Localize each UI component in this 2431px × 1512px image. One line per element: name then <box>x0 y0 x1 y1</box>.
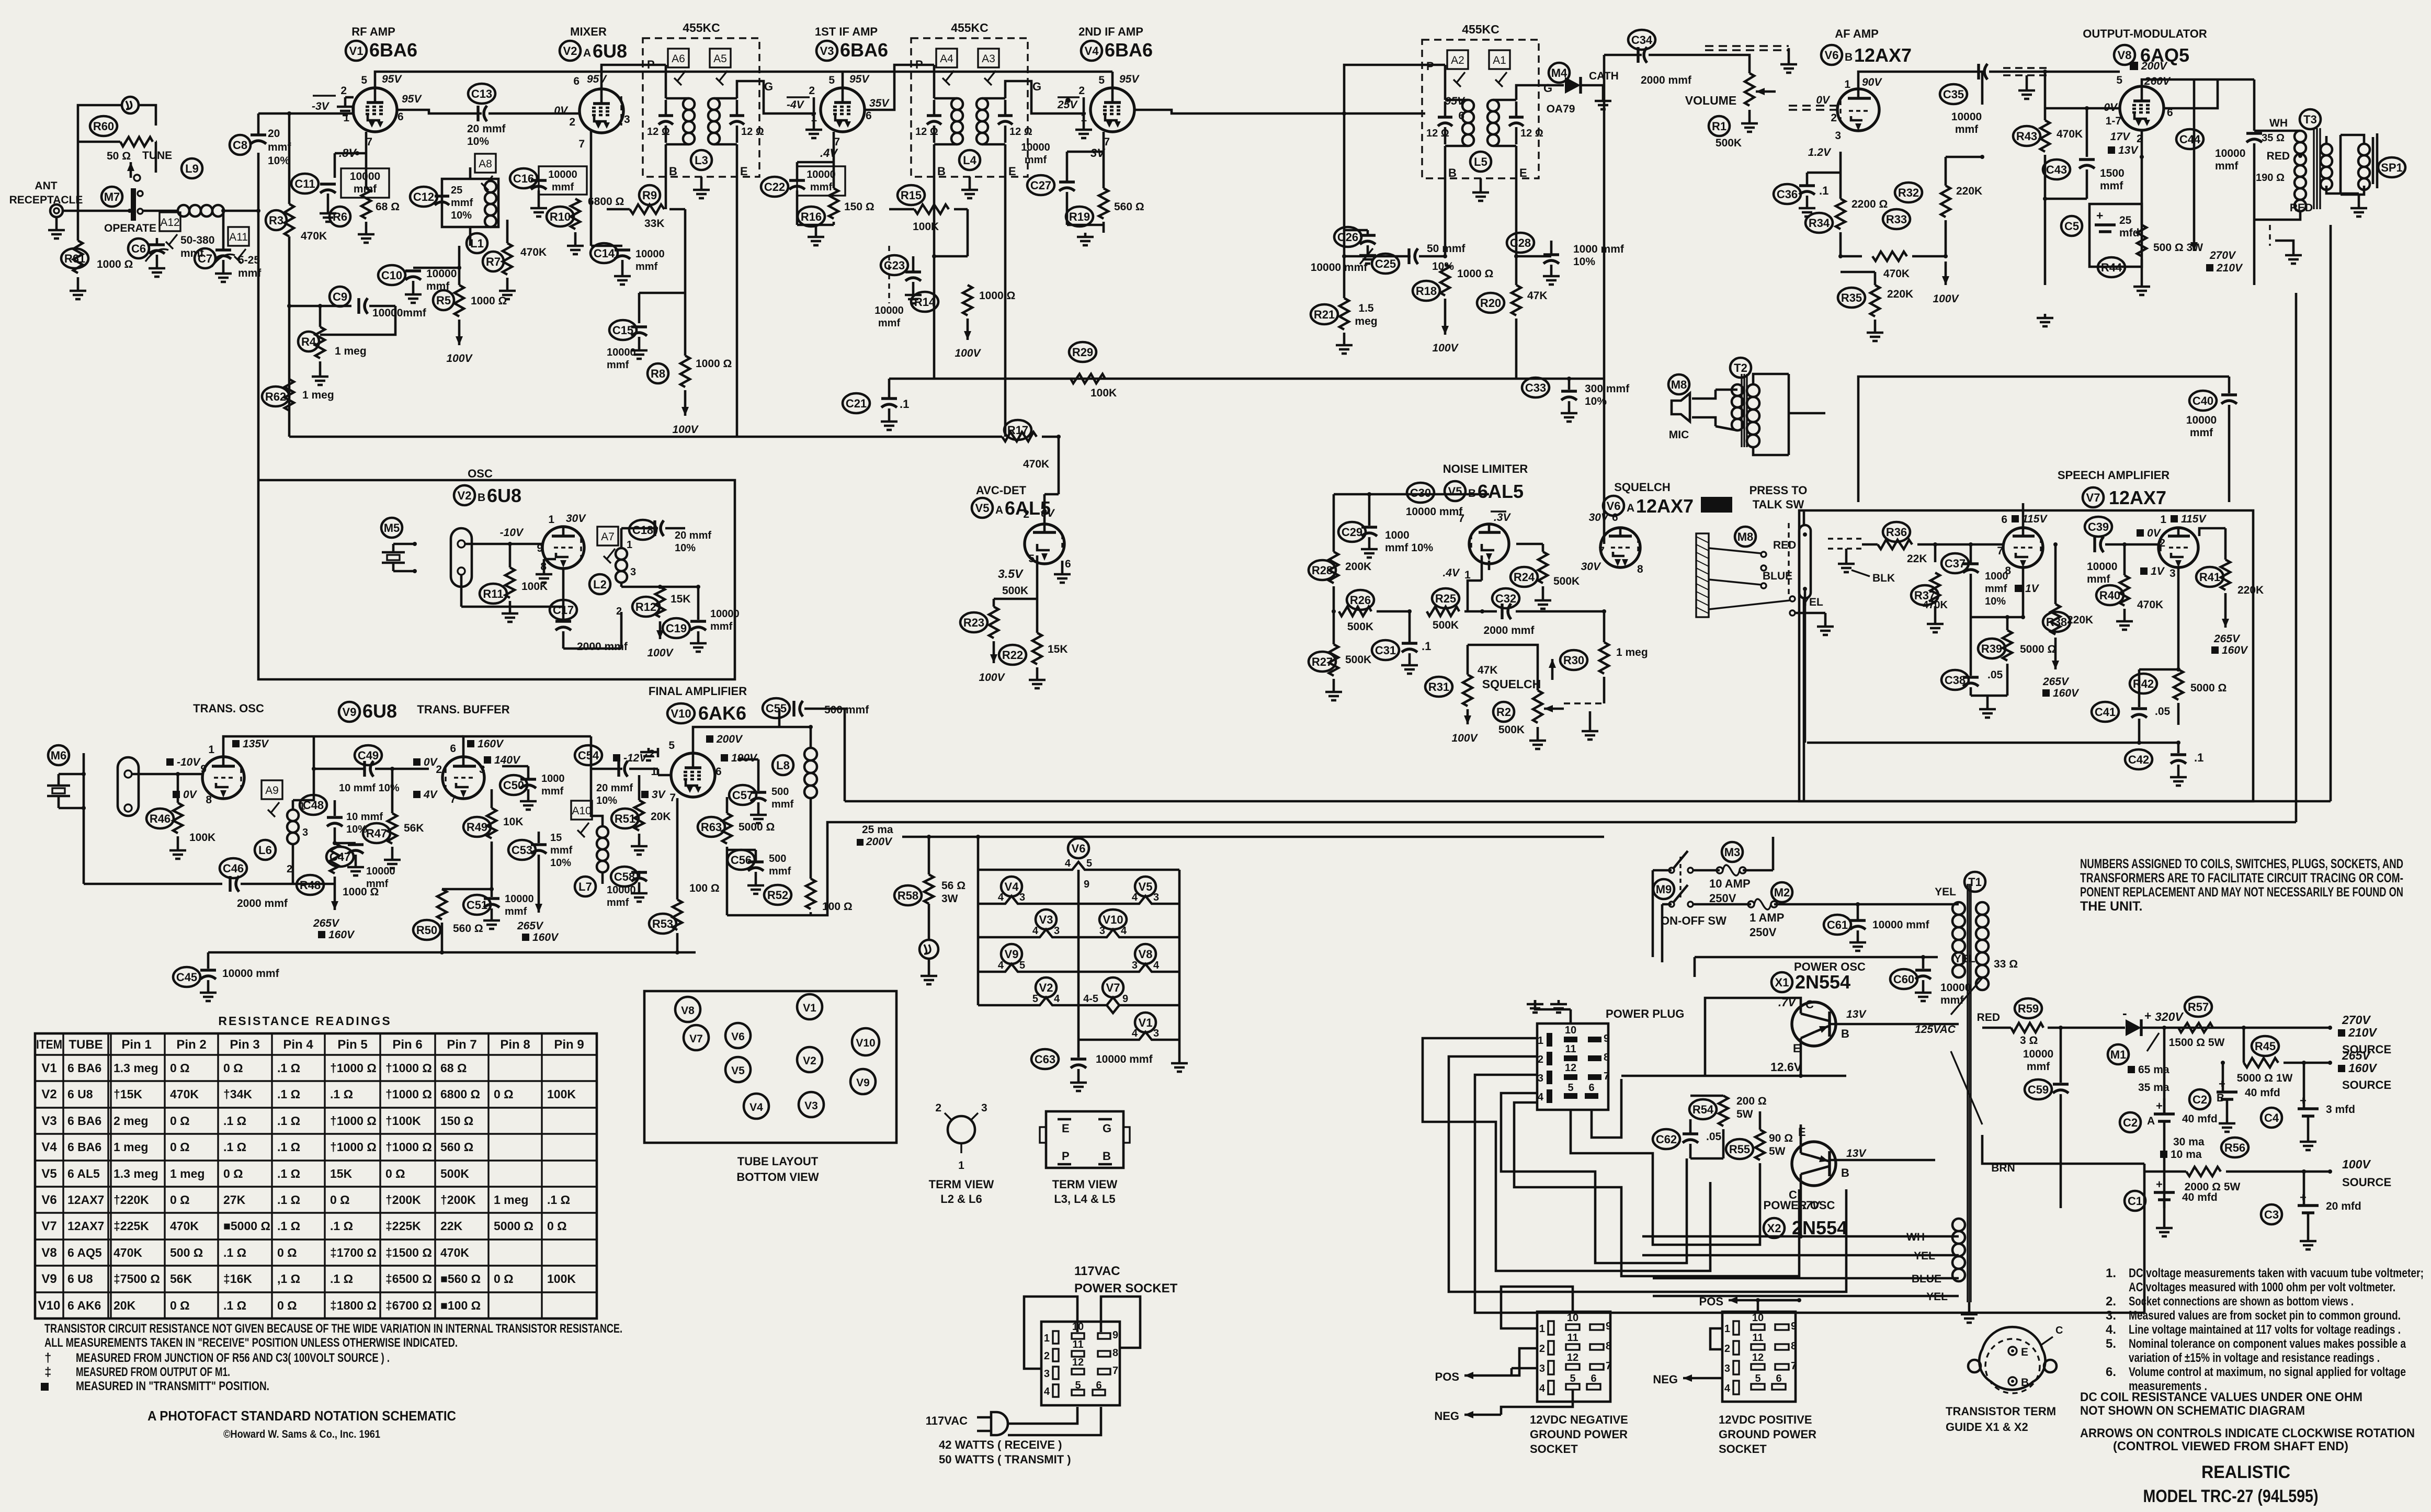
cathode network C5 R44 <box>2141 131 2143 157</box>
svg-text:NEG: NEG <box>1434 1409 1459 1423</box>
svg-text:10000: 10000 <box>426 268 457 280</box>
crystal M5 <box>381 518 402 538</box>
svg-text:5000 Ω: 5000 Ω <box>494 1219 533 1233</box>
wire V3 plate rail <box>842 72 844 88</box>
wire bus to noise limiter <box>1349 378 1516 380</box>
svg-text:95V: 95V <box>587 73 607 85</box>
tube V9A 6U8 transmitter oscillator <box>202 757 244 799</box>
svg-text:1: 1 <box>1464 569 1471 581</box>
svg-text:4: 4 <box>998 960 1004 971</box>
svg-text:125VAC: 125VAC <box>1915 1024 1956 1036</box>
svg-text:6: 6 <box>1065 558 1071 570</box>
svg-text:C46: C46 <box>223 862 244 875</box>
svg-text:C22: C22 <box>764 180 785 194</box>
svg-text:YEL: YEL <box>1935 886 1956 898</box>
svg-text:2: 2 <box>1044 1350 1050 1362</box>
svg-text:■5000 Ω: ■5000 Ω <box>223 1219 270 1233</box>
wire V5A anode from bus <box>1043 494 1046 524</box>
svg-text:-: - <box>2122 1005 2127 1021</box>
trimmer capacitor C6 <box>128 238 149 258</box>
svg-text:10000 mmf: 10000 mmf <box>1311 262 1368 274</box>
svg-text:B: B <box>1103 1150 1111 1163</box>
svg-text:C27: C27 <box>1030 179 1051 192</box>
svg-text:0 Ω: 0 Ω <box>330 1193 350 1207</box>
tube layout V10 <box>852 1028 879 1055</box>
resistor R11 100K <box>480 584 507 604</box>
svg-text:470K: 470K <box>520 246 547 258</box>
svg-text:5: 5 <box>361 74 367 86</box>
svg-text:C4: C4 <box>2264 1111 2279 1124</box>
svg-text:Pin 5: Pin 5 <box>337 1038 367 1052</box>
resistor R18 <box>1413 281 1440 301</box>
svg-text:L1: L1 <box>470 237 484 250</box>
svg-text:6: 6 <box>1458 110 1464 122</box>
secondary winding <box>976 98 988 110</box>
svg-text:A6: A6 <box>672 53 685 65</box>
svg-text:meg: meg <box>1355 315 1377 327</box>
svg-text:10%: 10% <box>596 795 617 806</box>
svg-text:TRANS. OSC: TRANS. OSC <box>193 702 264 715</box>
capacitor C9 AVC filter <box>330 287 350 306</box>
svg-text:.1 Ω: .1 Ω <box>223 1140 246 1154</box>
resistor R39 5000 <box>1978 639 2005 658</box>
svg-text:500: 500 <box>771 786 789 798</box>
svg-text:WH: WH <box>2269 117 2288 129</box>
socket wire loop right <box>1101 1297 1140 1348</box>
svg-text:V9: V9 <box>343 706 357 719</box>
svg-text:9: 9 <box>1791 1321 1797 1332</box>
transformer T2 microphone <box>1730 358 1751 378</box>
12VDC positive ground power socket <box>1722 1312 1796 1402</box>
svg-text:POWER SOCKET: POWER SOCKET <box>1074 1281 1178 1295</box>
svg-text:L6: L6 <box>258 844 272 857</box>
svg-text:4: 4 <box>1054 993 1060 1005</box>
capacitor C41 <box>2092 702 2119 722</box>
svg-text:+: + <box>2144 1009 2151 1022</box>
svg-text:10 AMP: 10 AMP <box>1709 877 1751 890</box>
X1 base bar <box>1828 1011 1831 1037</box>
svg-text:†1000 Ω: †1000 Ω <box>385 1061 432 1075</box>
svg-text:V6: V6 <box>1607 499 1621 513</box>
svg-text:10000: 10000 <box>874 305 904 316</box>
svg-text:1500 Ω 5W: 1500 Ω 5W <box>2169 1037 2225 1049</box>
svg-text:mmf: mmf <box>552 181 574 193</box>
svg-text:47K: 47K <box>1527 290 1548 302</box>
coil L7 <box>575 877 596 896</box>
svg-text:95V: 95V <box>849 73 870 85</box>
svg-text:10K: 10K <box>503 816 524 828</box>
svg-text:C55: C55 <box>766 702 787 715</box>
svg-text:A7: A7 <box>601 531 615 543</box>
svg-text:V10: V10 <box>1103 913 1123 926</box>
svg-text:4: 4 <box>1132 892 1138 903</box>
svg-text:E: E <box>1008 165 1016 178</box>
wire L6 bottom <box>292 844 294 884</box>
svg-text:22K: 22K <box>440 1219 463 1233</box>
svg-text:15K: 15K <box>330 1167 353 1180</box>
speech amplifier enclosure box <box>1799 510 2253 801</box>
svg-text:SOURCE: SOURCE <box>2342 1176 2391 1189</box>
svg-text:100V: 100V <box>1432 342 1459 354</box>
svg-text:A10: A10 <box>572 805 591 817</box>
svg-text:500K: 500K <box>440 1167 469 1180</box>
svg-text:A12: A12 <box>160 217 179 229</box>
svg-text:†1000 Ω: †1000 Ω <box>385 1140 432 1154</box>
wire V5A cathode down <box>1036 555 1039 599</box>
resistor R45 5000 1W <box>2252 1036 2279 1056</box>
svg-text:3: 3 <box>302 827 308 838</box>
svg-text:100V: 100V <box>979 672 1005 684</box>
svg-text:AF AMP: AF AMP <box>1835 27 1879 40</box>
svg-text:1000: 1000 <box>1385 529 1410 541</box>
svg-text:30V: 30V <box>1589 511 1609 524</box>
heater V9 <box>1001 944 1022 964</box>
svg-text:R20: R20 <box>1480 297 1501 310</box>
svg-text:C34: C34 <box>1631 33 1653 47</box>
T1 secondary 33ohm <box>1976 902 1989 915</box>
svg-text:C40: C40 <box>2193 394 2213 407</box>
svg-text:A: A <box>583 47 591 59</box>
wire V6B plate to C35 <box>1858 72 1982 105</box>
svg-text:B: B <box>669 165 677 178</box>
resistor R21 <box>1311 304 1338 324</box>
svg-text:V1: V1 <box>349 44 363 58</box>
svg-text:6AK6: 6AK6 <box>698 702 746 724</box>
svg-text:1: 1 <box>651 766 657 778</box>
svg-text:20 mmf: 20 mmf <box>675 530 711 541</box>
svg-text:6: 6 <box>1776 1373 1781 1384</box>
svg-text:V4: V4 <box>749 1101 763 1113</box>
wire B lead IF3 down <box>1444 146 1447 256</box>
capacitor C26 <box>1334 227 1361 247</box>
svg-text:C2: C2 <box>2193 1093 2207 1106</box>
svg-text:9: 9 <box>1606 1321 1611 1332</box>
svg-text:12AX7: 12AX7 <box>1854 44 1912 66</box>
svg-text:C37: C37 <box>1945 557 1966 570</box>
svg-text:1000 mmf: 1000 mmf <box>1573 243 1625 255</box>
svg-text:R15: R15 <box>901 189 922 202</box>
shielded mic cable <box>1803 510 1805 801</box>
svg-text:5000 Ω: 5000 Ω <box>2190 682 2226 694</box>
T2 core <box>1741 374 1742 447</box>
switch gang dashed <box>1679 857 1681 901</box>
svg-text:L9: L9 <box>185 162 199 175</box>
capacitor C28 <box>1507 233 1534 253</box>
ground V5A <box>1061 561 1064 570</box>
svg-text:0 Ω: 0 Ω <box>170 1299 190 1312</box>
svg-text:220K: 220K <box>1887 288 1913 300</box>
svg-text:260V: 260V <box>2144 75 2171 87</box>
resistor R61 <box>61 248 88 268</box>
270V 210V source <box>2328 1026 2332 1030</box>
wire crystal return <box>460 575 463 607</box>
svg-text:220K: 220K <box>2067 614 2093 626</box>
B+ arrow 100V detector <box>993 641 995 663</box>
svg-text:mmf: mmf <box>2215 160 2239 172</box>
svg-text:12VDC POSITIVE: 12VDC POSITIVE <box>1719 1413 1812 1426</box>
svg-text:4: 4 <box>1044 1386 1050 1397</box>
svg-text:190 Ω: 190 Ω <box>2256 172 2285 184</box>
svg-text:E: E <box>2021 1346 2028 1358</box>
svg-text:■100 Ω: ■100 Ω <box>440 1299 481 1312</box>
svg-text:.1 Ω: .1 Ω <box>223 1114 246 1128</box>
press to talk plunger dashed <box>1788 523 1789 596</box>
T1 secondary lower leads <box>1956 892 1982 902</box>
T1 primary lower <box>1952 1219 1965 1231</box>
svg-text:6: 6 <box>1096 1380 1101 1391</box>
wire L6 to osc plate <box>292 800 294 810</box>
svg-text:500K: 500K <box>1347 621 1373 633</box>
svg-text:R54: R54 <box>1692 1103 1714 1116</box>
wire P lead IF2 <box>915 64 934 66</box>
svg-text:3: 3 <box>1132 960 1138 971</box>
svg-text:7: 7 <box>1791 1360 1797 1372</box>
tube layout V9 <box>850 1069 876 1094</box>
svg-text:10000: 10000 <box>1951 111 1982 123</box>
svg-text:20 mmf: 20 mmf <box>467 123 506 135</box>
svg-text:100V: 100V <box>672 424 699 436</box>
svg-text:E: E <box>1519 166 1527 179</box>
svg-text:-12V: -12V <box>623 752 647 764</box>
svg-text:C59: C59 <box>2028 1083 2049 1096</box>
svg-text:R50: R50 <box>416 924 437 937</box>
resistor R16 <box>798 207 825 226</box>
svg-text:2: 2 <box>1023 508 1029 520</box>
svg-text:4: 4 <box>1065 858 1071 869</box>
svg-text:22K: 22K <box>1907 553 1927 565</box>
svg-text:M8: M8 <box>1671 378 1687 391</box>
svg-text:1: 1 <box>548 514 554 526</box>
heater ladder right rail <box>1178 870 1181 1059</box>
svg-text:R31: R31 <box>1428 680 1449 694</box>
svg-text:YEL: YEL <box>1954 953 1975 965</box>
svg-text:A3: A3 <box>982 53 995 65</box>
T3 core <box>2313 128 2314 209</box>
capacitor C30 <box>1407 483 1434 503</box>
svg-text:B: B <box>478 492 485 504</box>
svg-text:3 Ω: 3 Ω <box>2020 1034 2038 1047</box>
mic connector M8 <box>1668 374 1689 394</box>
svg-text:100V: 100V <box>446 353 473 365</box>
svg-text:R44: R44 <box>2101 261 2122 274</box>
svg-text:‡1500 Ω: ‡1500 Ω <box>385 1246 432 1259</box>
primary tuning capacitor <box>927 114 941 117</box>
svg-text:V7: V7 <box>2086 491 2100 504</box>
svg-text:OPERATE: OPERATE <box>104 222 156 234</box>
IF transformer L3 455KC box <box>643 38 759 177</box>
svg-text:SOURCE: SOURCE <box>2342 1078 2391 1092</box>
coil L9 <box>181 158 202 178</box>
svg-text:R39: R39 <box>1981 642 2002 655</box>
wire G lead IF2 to V4 grid <box>1005 81 1086 113</box>
svg-text:210V: 210V <box>2348 1026 2377 1039</box>
svg-text:15K: 15K <box>671 593 691 605</box>
tube layout V6 <box>725 1023 751 1048</box>
svg-text:RED: RED <box>1773 539 1796 551</box>
capacitor C13 coupling <box>468 84 495 104</box>
svg-text:2: 2 <box>809 85 815 97</box>
svg-text:T3: T3 <box>2303 113 2317 126</box>
svg-text:220K: 220K <box>1956 185 1982 197</box>
svg-text:mmf: mmf <box>1940 994 1964 1006</box>
svg-text:12 Ω: 12 Ω <box>647 126 670 138</box>
svg-text:10000 mmf: 10000 mmf <box>1872 919 1930 931</box>
svg-text:V2: V2 <box>1039 981 1053 994</box>
svg-text:mmf: mmf <box>268 141 291 153</box>
svg-text:6: 6 <box>1588 1082 1594 1094</box>
pad A3 <box>978 49 999 67</box>
svg-text:V1: V1 <box>1139 1016 1153 1029</box>
capacitor C22 cathode bypass V3 <box>761 177 788 197</box>
capacitor C29 <box>1338 522 1366 542</box>
resistor R14 <box>911 292 938 312</box>
capacitor C51 <box>463 895 491 915</box>
svg-text:0 Ω: 0 Ω <box>547 1219 567 1233</box>
svg-text:A9: A9 <box>265 785 279 797</box>
svg-text:9: 9 <box>1604 1033 1609 1044</box>
svg-text:10 mmf 10%: 10 mmf 10% <box>339 782 400 794</box>
heater V10 <box>1099 910 1127 929</box>
svg-text:MIC: MIC <box>1669 429 1689 441</box>
svg-text:R5: R5 <box>436 294 451 307</box>
svg-text:Pin 2: Pin 2 <box>176 1038 206 1052</box>
svg-text:25 ma: 25 ma <box>862 824 893 836</box>
svg-text:10000: 10000 <box>1940 982 1971 994</box>
svg-text:mmf: mmf <box>1955 123 1979 135</box>
wire V7A plate up <box>2022 515 2025 528</box>
resistor R52 100ohm <box>764 885 791 905</box>
svg-text:C: C <box>2055 1325 2063 1336</box>
svg-text:RED: RED <box>1977 1011 2000 1024</box>
svg-text:THE UNIT.: THE UNIT. <box>2080 899 2142 914</box>
svg-text:160V: 160V <box>328 929 355 941</box>
svg-text:33 Ω: 33 Ω <box>1994 958 2018 970</box>
svg-text:C48: C48 <box>303 799 324 812</box>
svg-text:12AX7: 12AX7 <box>2109 487 2166 508</box>
svg-text:R1: R1 <box>1712 120 1726 133</box>
svg-text:5: 5 <box>1086 858 1092 869</box>
svg-text:mmf: mmf <box>710 621 733 632</box>
wire T3 primary bottom <box>2254 211 2300 220</box>
svg-text:1000 Ω: 1000 Ω <box>1457 268 1493 280</box>
svg-text:95V: 95V <box>382 73 402 85</box>
svg-text:1-7: 1-7 <box>2106 115 2121 127</box>
svg-text:3: 3 <box>624 113 630 126</box>
wire final output to antenna changeover <box>811 822 2296 915</box>
svg-text:A5: A5 <box>713 53 727 65</box>
resistor R32 220K <box>1895 183 1922 202</box>
X1 emitter with arrow <box>1801 1032 1815 1038</box>
capacitor C25 <box>1372 254 1399 274</box>
pad A6 <box>668 49 689 67</box>
svg-text:TRANSFORMERS ARE TO FACILITATE: TRANSFORMERS ARE TO FACILITATE CIRCUIT T… <box>2080 871 2403 885</box>
svg-text:470K: 470K <box>170 1087 199 1101</box>
svg-text:6: 6 <box>397 111 404 123</box>
svg-text:12 Ω: 12 Ω <box>1520 128 1543 139</box>
resistor R46 100K <box>146 809 174 828</box>
svg-text:R60: R60 <box>93 120 114 133</box>
svg-text:C12: C12 <box>413 190 434 203</box>
pad A9 <box>262 780 282 799</box>
svg-text:2: 2 <box>340 85 347 97</box>
svg-text:V1: V1 <box>803 1002 816 1014</box>
svg-text:mmf: mmf <box>541 786 564 797</box>
svg-text:1: 1 <box>2160 514 2166 526</box>
svg-text:7: 7 <box>1997 545 2003 557</box>
svg-text:-3V: -3V <box>312 100 330 112</box>
X2 base bar <box>1828 1151 1831 1176</box>
svg-text:12AX7: 12AX7 <box>1636 495 1694 517</box>
svg-text:MODEL TRC-27 (94L595): MODEL TRC-27 (94L595) <box>2143 1486 2319 1506</box>
svg-text:68 Ω: 68 Ω <box>376 201 400 213</box>
pad A2 <box>1447 50 1468 69</box>
svg-text:4: 4 <box>1132 1028 1138 1039</box>
svg-text:C45: C45 <box>176 971 197 984</box>
wire plate to C13 <box>397 110 482 113</box>
svg-text:mmf: mmf <box>2087 573 2110 585</box>
svg-text:2: 2 <box>1831 112 1837 124</box>
capacitor C35 coupling <box>1940 84 1967 104</box>
svg-text:320V: 320V <box>2155 1010 2184 1024</box>
B+ arrow 265V buffer <box>538 868 540 913</box>
resistor R51 20K <box>611 809 639 828</box>
svg-text:TRANS. BUFFER: TRANS. BUFFER <box>417 703 509 716</box>
svg-text:V4: V4 <box>41 1140 57 1154</box>
lamp (tune indicator) <box>122 97 139 113</box>
trimmer capacitor C7 <box>195 248 215 268</box>
svg-text:TUNE: TUNE <box>142 150 172 162</box>
crystal socket oval transmit <box>118 757 139 816</box>
svg-text:12VDC NEGATIVE: 12VDC NEGATIVE <box>1530 1413 1628 1426</box>
svg-text:V3: V3 <box>820 44 834 58</box>
svg-text:6 U8: 6 U8 <box>67 1087 93 1101</box>
wire buffer plate <box>463 736 591 756</box>
primary winding L5 <box>1462 100 1474 111</box>
mic connector M8 talk <box>1735 527 1756 547</box>
svg-text:mmf: mmf <box>2027 1061 2050 1073</box>
svg-text:R47: R47 <box>366 827 387 840</box>
resistor R28 <box>1309 560 1336 580</box>
svg-text:B: B <box>2021 1377 2029 1389</box>
svg-text:12: 12 <box>1072 1357 1084 1368</box>
svg-text:R58: R58 <box>898 889 918 902</box>
resistor R7 <box>483 252 504 271</box>
svg-text:R40: R40 <box>2099 589 2120 602</box>
coil designator L3 <box>691 150 712 170</box>
wire screen to B+ <box>2164 79 2218 108</box>
B+ arrow down from C44 node <box>2193 183 2196 251</box>
svg-text:-10V: -10V <box>500 527 524 539</box>
resistor R63 5000 <box>698 817 725 837</box>
wire V7B cathode R42 <box>2177 567 2180 669</box>
svg-text:,1 Ω: ,1 Ω <box>277 1272 300 1286</box>
wire V4 plate right to IF3 <box>1134 110 1297 113</box>
svg-text:■560 Ω: ■560 Ω <box>440 1272 481 1286</box>
svg-text:6U8: 6U8 <box>487 485 521 506</box>
svg-text:.1 Ω: .1 Ω <box>277 1087 300 1101</box>
pilot lamp <box>919 940 938 959</box>
svg-text:160V: 160V <box>2053 687 2080 699</box>
svg-text:C6: C6 <box>131 242 146 255</box>
wires plug to socket <box>1008 1407 1077 1424</box>
svg-text:20K: 20K <box>651 811 671 823</box>
svg-text:40 mfd: 40 mfd <box>2245 1087 2280 1099</box>
svg-text:0V: 0V <box>1816 94 1831 106</box>
svg-text:G: G <box>1103 1122 1111 1135</box>
heater V6 <box>1068 838 1089 858</box>
svg-text:2: 2 <box>1724 1343 1730 1355</box>
svg-text:25: 25 <box>451 185 462 196</box>
